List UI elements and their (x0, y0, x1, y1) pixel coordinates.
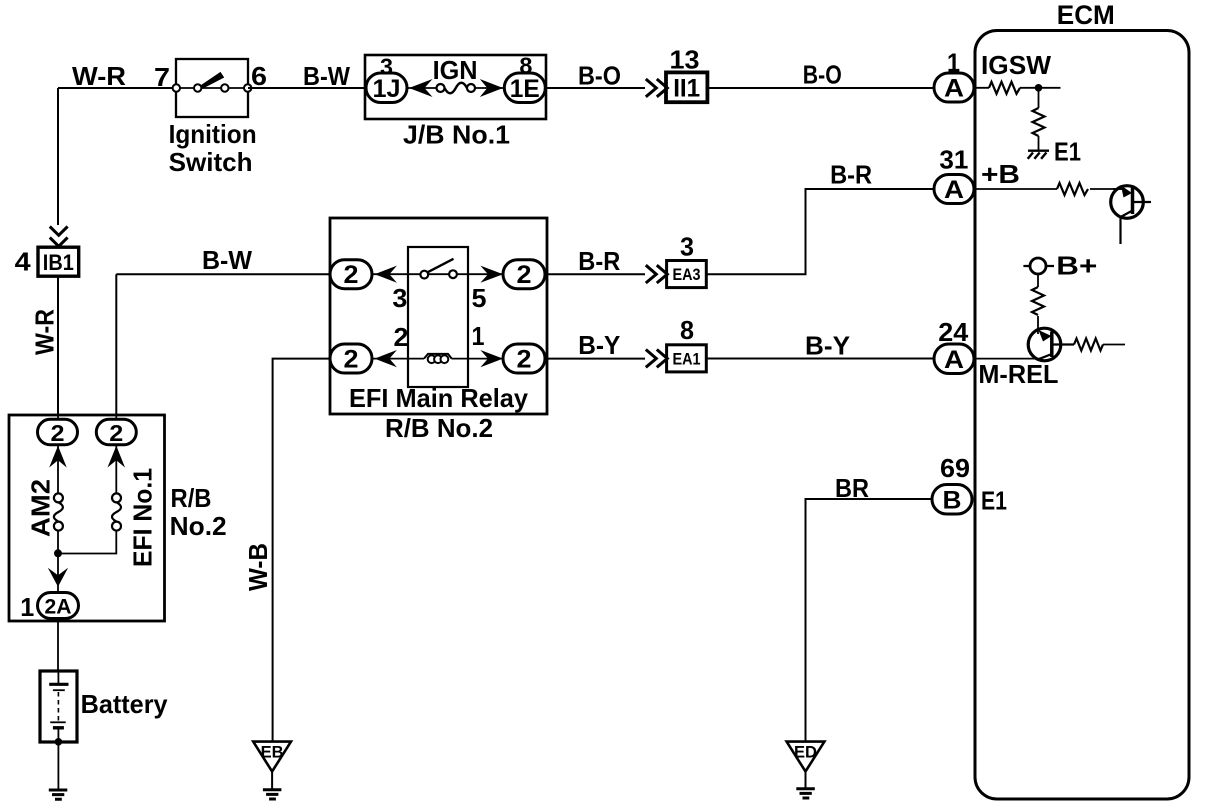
svg-text:EA1: EA1 (673, 350, 701, 368)
wire W-R vertical IB1 to R/B No.1 (57, 276, 59, 415)
junction node IGSW (1035, 84, 1043, 92)
svg-text:2: 2 (51, 420, 65, 446)
svg-text:7: 7 (154, 62, 170, 92)
B+ terminal circle (1030, 258, 1046, 274)
relay inner box (408, 247, 468, 387)
svg-text:A: A (944, 75, 964, 103)
arrow up EFI No.1 (108, 446, 126, 468)
fuse AM2 (54, 502, 63, 521)
svg-text:2: 2 (517, 346, 532, 374)
wire ED to ground (805, 772, 807, 789)
junction node AM2 (54, 549, 62, 557)
svg-text:W-R: W-R (30, 309, 60, 355)
arrow right relay coil row (480, 350, 503, 367)
wire resistor to chassis ground (1038, 136, 1040, 150)
junction block J/B No.1 box (365, 55, 546, 119)
svg-text:B-O: B-O (578, 61, 621, 91)
ground battery (49, 790, 68, 799)
svg-text:+B: +B (981, 159, 1020, 189)
svg-text:6: 6 (251, 61, 267, 91)
ECM box (975, 31, 1189, 800)
wire through ignition switch (176, 87, 248, 89)
junction node battery bottom (55, 738, 63, 746)
svg-text:2: 2 (109, 420, 123, 446)
ignition switch terminal 6 (244, 84, 251, 91)
svg-text:13: 13 (670, 45, 700, 75)
ignition switch contact right (221, 84, 228, 91)
svg-text:ECM: ECM (1057, 0, 1115, 30)
svg-text:IB1: IB1 (43, 250, 74, 275)
ECM pin 69 oval B (932, 485, 972, 515)
wire relay coil row right (452, 358, 504, 360)
connector II1 box (666, 72, 707, 102)
fuse IGN right terminal (467, 84, 475, 92)
connector oval 1E (504, 73, 545, 103)
chassis ground E1 (1028, 151, 1049, 159)
arrow left relay coil row (375, 350, 397, 367)
wire BR ECM pin 69 to ED ground (806, 499, 933, 741)
wire IGSW row (974, 87, 1061, 89)
wire relay switch row (372, 273, 503, 275)
arrow right relay switch row (480, 266, 503, 283)
svg-text:A: A (944, 346, 964, 374)
relay oval 2 bottom-right (503, 344, 545, 373)
wire B-W horizontal to relay (116, 273, 330, 275)
svg-text:3: 3 (680, 231, 694, 261)
connector EA1 box (667, 345, 707, 372)
arrow left relay switch row (375, 266, 397, 283)
svg-text:1: 1 (20, 592, 34, 622)
relay block R/B No.2 box (330, 218, 547, 414)
resistor Q2 base (1074, 339, 1103, 351)
svg-text:2: 2 (344, 261, 359, 289)
wire B-W vertical to R/B No.1 (115, 274, 117, 415)
svg-text:B-W: B-W (202, 245, 252, 275)
relay oval 2 top-right (503, 260, 545, 289)
relay switch contact left (420, 271, 428, 279)
svg-text:E1: E1 (981, 486, 1007, 516)
arrow up AM2 (49, 446, 66, 468)
svg-text:2A: 2A (45, 596, 72, 619)
wire +B row (974, 188, 1122, 190)
svg-text:IGN: IGN (433, 55, 478, 85)
connector arrows above IB1 (50, 227, 68, 247)
resistor IGSW (989, 82, 1020, 94)
svg-text:2: 2 (394, 322, 409, 352)
svg-text:Ignition: Ignition (169, 119, 257, 149)
svg-text:EB: EB (261, 743, 284, 762)
relay oval 2 bottom-left (330, 344, 372, 373)
relay oval 2 top-left (330, 260, 372, 289)
oval 2A (38, 593, 79, 619)
wire resistor to Q2 (1037, 316, 1039, 331)
svg-text:A: A (944, 176, 964, 204)
wire relay coil row left (372, 358, 424, 360)
wire B-O II1 to ECM pin 1 (707, 87, 934, 89)
battery dashed link (57, 692, 59, 721)
wire B+ down (1037, 274, 1039, 287)
svg-text:No.2: No.2 (170, 511, 227, 541)
svg-text:B-Y: B-Y (578, 330, 620, 360)
svg-text:W-B: W-B (243, 543, 273, 591)
svg-text:BR: BR (835, 473, 869, 503)
wire battery to ground (57, 742, 59, 789)
svg-text:2: 2 (344, 346, 359, 374)
ECM pin 1 oval A (934, 73, 974, 102)
svg-text:Switch: Switch (169, 147, 253, 177)
svg-text:1: 1 (472, 321, 485, 351)
wire W-R top horizontal (58, 87, 176, 89)
svg-text:R/B No.2: R/B No.2 (385, 413, 493, 443)
svg-text:B-W: B-W (303, 61, 350, 91)
svg-text:EFI Main Relay: EFI Main Relay (349, 383, 529, 413)
arrow down to 2A (48, 568, 68, 587)
relay coil (424, 354, 452, 359)
battery plate positive long (49, 683, 68, 686)
svg-text:E1: E1 (1054, 137, 1081, 167)
wire B-Y EA1 to ECM pin 24 (706, 358, 934, 360)
svg-text:M-REL: M-REL (978, 359, 1058, 389)
relay switch blade (428, 259, 454, 273)
arrow left J/B (409, 79, 433, 97)
connector IB1 box (38, 247, 79, 276)
svg-text:B-R: B-R (830, 159, 872, 189)
ground ED (796, 789, 815, 798)
arrow right J/B (480, 79, 503, 97)
ground point ED triangle (787, 742, 825, 772)
ground EB (263, 790, 282, 799)
svg-text:2: 2 (517, 261, 532, 289)
svg-text:W-R: W-R (72, 61, 126, 91)
battery plate thin 2 (50, 721, 65, 723)
wire W-B relay to EB ground (273, 359, 330, 741)
battery box (40, 671, 77, 742)
svg-text:EFI No.1: EFI No.1 (128, 468, 158, 567)
svg-text:B-Y: B-Y (805, 331, 850, 361)
fuse IGN left terminal (437, 84, 445, 92)
ignition switch contact left (194, 84, 201, 91)
B+ terminal stubs (1023, 265, 1054, 267)
svg-text:4: 4 (15, 247, 32, 277)
svg-text:B: B (943, 487, 962, 515)
wire B-R relay to EA3 (547, 273, 645, 275)
svg-text:ED: ED (794, 743, 817, 762)
wire B-O J/B to II1 (546, 87, 645, 89)
svg-text:69: 69 (940, 453, 970, 483)
svg-text:1J: 1J (373, 75, 401, 103)
battery negative lead (57, 730, 59, 743)
resistor to E1 vertical (1033, 108, 1045, 136)
fuse IGN wave (445, 83, 468, 94)
wire B-Y relay to EA1 (547, 358, 645, 360)
ECM pin 24 oval A (934, 344, 974, 374)
svg-text:31: 31 (939, 144, 968, 174)
transistor Q1 (1111, 186, 1151, 245)
fuse EFI No.1 (112, 502, 121, 521)
svg-text:B-O: B-O (803, 60, 842, 90)
svg-text:3: 3 (392, 283, 407, 313)
wire inside J/B row (407, 87, 504, 89)
resistor +B row (1057, 183, 1088, 195)
ignition switch box (176, 59, 248, 117)
svg-text:B-R: B-R (578, 246, 620, 276)
wire AM2 column (57, 415, 59, 593)
wire B-R EA3 to ECM pin 31 (706, 189, 934, 274)
svg-text:1E: 1E (510, 75, 540, 103)
wire junction down (1038, 88, 1040, 108)
resistor below B+ (1032, 287, 1044, 315)
battery plate negative short (53, 726, 64, 729)
battery plate thin 1 (53, 689, 65, 691)
transistor Q2 (1028, 328, 1074, 361)
svg-text:B+: B+ (1056, 250, 1097, 280)
svg-text:AM2: AM2 (26, 479, 56, 537)
connector oval 1J (366, 73, 407, 103)
relay switch contact right (449, 270, 457, 278)
ignition switch terminal 7 (173, 84, 180, 91)
wire W-R vertical down to IB1 (57, 88, 59, 225)
wire EFI No.1 column (61, 415, 116, 554)
wire B-W from switch to J/B (248, 87, 365, 89)
oval 2 EFI No.1 top (96, 419, 136, 445)
connector EA3 box (667, 261, 707, 288)
ignition switch blade (200, 72, 224, 89)
svg-text:5: 5 (472, 283, 487, 313)
ground point EB triangle (253, 742, 291, 772)
svg-text:Battery: Battery (81, 689, 169, 719)
svg-text:II1: II1 (673, 75, 700, 103)
relay block R/B No.1 box (9, 415, 165, 621)
svg-text:R/B: R/B (171, 483, 212, 513)
connector arrows before EA1 (646, 350, 668, 368)
svg-text:EA3: EA3 (673, 266, 701, 284)
connector arrows before II1 (646, 79, 668, 97)
oval 2 AM2 top (38, 419, 78, 445)
ECM pin 31 oval A (934, 175, 974, 204)
battery internals (57, 671, 59, 684)
wire EB to ground (271, 772, 273, 790)
svg-text:IGSW: IGSW (981, 50, 1051, 80)
wire 2A to battery (57, 619, 59, 672)
connector arrows before EA3 (646, 265, 668, 283)
svg-text:8: 8 (680, 315, 694, 345)
svg-text:J/B No.1: J/B No.1 (403, 120, 510, 150)
wire Q2 base row (1103, 344, 1125, 346)
wire pin 24 to Q2 (974, 358, 1041, 360)
